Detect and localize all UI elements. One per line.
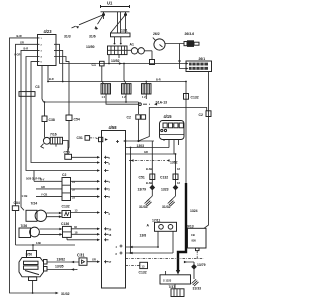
svg-text:13/50: 13/50: [86, 45, 95, 49]
ground 31/33 bottom right: [192, 279, 202, 290]
wire junction to spark column: [151, 141, 153, 196]
svg-text:B-SB: B-SB: [146, 167, 152, 171]
svg-text:B-SB: B-SB: [146, 181, 152, 185]
svg-text:13/79: 13/79: [138, 187, 147, 191]
wire 3/50 terminal 13/82: [47, 261, 79, 263]
svg-text:C132: C132: [62, 205, 70, 209]
component 7/16 sensor: [41, 122, 63, 149]
svg-text:1 CB: 1 CB: [22, 194, 28, 198]
connector C3 strip: [19, 85, 40, 96]
node pin crosses inside 4/58: [104, 140, 119, 263]
svg-text:Y-GR: Y-GR: [14, 53, 20, 57]
wire U1 negative fan to grounds: [79, 15, 104, 25]
wire rows to 17/11: [126, 247, 174, 253]
svg-text:26/3-6: 26/3-6: [185, 32, 195, 36]
svg-text:13/1: 13/1: [121, 29, 128, 33]
svg-text:C50: C50: [64, 150, 70, 154]
svg-text:13/82: 13/82: [57, 257, 66, 261]
svg-text:C31: C31: [77, 253, 85, 258]
component U1 battery: [101, 0, 130, 16]
wire dashed 1362: [129, 160, 165, 162]
svg-text:C132: C132: [191, 96, 199, 100]
wire row 147: [126, 147, 170, 149]
wire main right vertical: [185, 82, 187, 184]
svg-text:S1A-13: S1A-13: [156, 101, 168, 105]
component 7/37: [169, 284, 185, 297]
fuse 3: [142, 84, 152, 94]
svg-text:B-R: B-R: [24, 47, 29, 51]
svg-text:Y-CB: Y-CB: [41, 193, 47, 197]
connector C54: [66, 115, 80, 122]
wire 3/50 bottom tab to ground run: [32, 281, 34, 294]
relay 17/11: [147, 218, 177, 253]
connector C2 right: [199, 111, 212, 117]
wire dashed 9/13 down: [126, 251, 204, 259]
svg-text:7/26: 7/26: [21, 224, 28, 228]
svg-text:13/35: 13/35: [55, 265, 64, 269]
wire 4/23 pin3 left: [21, 50, 38, 210]
ground 31/33 left: [139, 196, 152, 209]
svg-text:7/24: 7/24: [31, 202, 38, 206]
svg-text:1 2: 1 2: [142, 95, 146, 99]
component 7/24 solenoid: [26, 202, 47, 222]
connector C84: [12, 201, 26, 245]
svg-text:C54: C54: [74, 118, 80, 122]
connector C2 pair mid: [127, 115, 146, 120]
fuse 2: [122, 84, 132, 94]
svg-text:1362: 1362: [170, 161, 178, 165]
connector 26/1: [186, 57, 212, 71]
wire 7/24 to C132 diodes: [47, 213, 61, 217]
ground 31/32 right: [162, 196, 176, 209]
wire C132 to 4/58: [71, 212, 99, 214]
wire 4/23 pin2 left: [16, 44, 38, 206]
svg-text:C2: C2: [127, 116, 131, 120]
component 4/23 ignition switch: [38, 29, 57, 66]
ground arrow 31/3: [64, 25, 79, 38]
svg-text:13B: 13B: [36, 241, 41, 245]
svg-text:A1: A1: [130, 42, 134, 46]
svg-text:C1: C1: [92, 63, 96, 67]
svg-text:31/32: 31/32: [61, 292, 70, 296]
connector C132 mid: [160, 167, 180, 185]
svg-text:1324: 1324: [190, 209, 198, 213]
connector C136: [61, 222, 71, 237]
svg-text:C51: C51: [77, 136, 83, 140]
wire 4/23 pin5 left: [31, 62, 99, 163]
splice 1323: [161, 185, 178, 192]
wire clock down to 26/1: [180, 44, 188, 69]
splice 13/79 bottom right: [184, 261, 206, 279]
svg-text:C132: C132: [139, 270, 147, 274]
component 4/58 control unit: [102, 125, 126, 288]
svg-text:CB: CB: [191, 233, 195, 237]
svg-text:7/16: 7/16: [50, 133, 57, 137]
wire row 154: [126, 153, 176, 155]
svg-text:C136: C136: [61, 222, 69, 226]
svg-text:4/15: 4/15: [164, 114, 173, 119]
svg-text:826: 826: [192, 239, 197, 243]
wire S1A-13: [106, 94, 167, 106]
wire C2 right down to junction node: [139, 108, 206, 141]
svg-text:C3: C3: [35, 85, 39, 89]
connector C132 bottom left boxes: [126, 262, 148, 274]
svg-text:4/23: 4/23: [44, 29, 53, 34]
svg-text:13/52: 13/52: [111, 59, 120, 63]
wire U1 positive bundle to 13/1: [111, 12, 126, 33]
svg-text:17/11: 17/11: [152, 218, 160, 222]
svg-text:31/6: 31/6: [89, 35, 96, 39]
svg-text:4/58: 4/58: [109, 125, 118, 130]
svg-text:1 2: 1 2: [122, 95, 126, 99]
svg-text:GR: GR: [20, 40, 24, 44]
connector C2 three-cell: [34, 171, 75, 201]
svg-text:B-R: B-R: [156, 77, 161, 81]
splice 13/79: [138, 185, 156, 192]
wire C2 rows to 4/58: [71, 181, 99, 196]
wire C2 down to junction: [138, 120, 140, 142]
svg-text:1323: 1323: [161, 187, 169, 191]
wire 7/16 to C50: [63, 121, 70, 155]
svg-text:C84: C84: [14, 201, 20, 205]
connector 13/1: [111, 29, 131, 45]
motor A1: [127, 42, 155, 64]
wire 4/23 right pin B to B-R bus: [56, 50, 63, 81]
svg-text:31/3: 31/3: [64, 35, 71, 39]
svg-text:C2: C2: [62, 173, 66, 177]
node main feed wire 13/52 to 26/1: [59, 59, 186, 65]
svg-text:1 2: 1 2: [102, 95, 106, 99]
connector C1: [92, 61, 105, 67]
svg-text:U1: U1: [107, 0, 113, 5]
wire C136 rows to 4/58: [67, 229, 99, 240]
component 7/26 solenoid: [19, 224, 39, 238]
connector C31: [77, 253, 100, 266]
clock 26/2: [153, 32, 165, 50]
wire 4/23 bottom pins: [42, 66, 48, 103]
ground arrow 31/6: [89, 26, 98, 39]
wire junction into 4/58 right: [126, 140, 155, 142]
relay 13/50: [86, 45, 127, 55]
wire B-R bus: [48, 81, 186, 83]
component 9/13 radio: [187, 225, 206, 251]
svg-text:C51: C51: [139, 175, 145, 179]
svg-text:13/8: 13/8: [140, 234, 147, 238]
wire 3/50 terminal 13/35: [47, 269, 77, 272]
svg-text:GR: GR: [41, 185, 45, 189]
svg-text:GR: GR: [92, 257, 96, 261]
connector C50: [64, 150, 101, 159]
svg-text:S 1323: S 1323: [163, 278, 172, 282]
svg-text:31/32: 31/32: [162, 205, 171, 209]
wire x26 horizontal y245: [26, 245, 75, 251]
svg-text:C38: C38: [49, 118, 55, 122]
connector C51: [139, 167, 155, 185]
svg-text:5/28 OLR-PA: 5/28 OLR-PA: [26, 177, 42, 181]
connector C132 diode pack: [62, 205, 71, 218]
svg-text:31/33: 31/33: [139, 205, 148, 209]
svg-text:B-W: B-W: [17, 34, 23, 38]
wire 7/26 to C136: [39, 229, 61, 234]
svg-text:GR: GR: [144, 150, 148, 154]
wire 4/23 right pin A to feed: [56, 44, 60, 63]
wire 4/23 pin4 left: [26, 57, 99, 171]
wire right edge vertical from 26/1: [204, 72, 209, 229]
svg-text:B-R: B-R: [49, 77, 54, 81]
svg-text:26/2: 26/2: [153, 32, 160, 36]
component fuel pump bar: [160, 271, 191, 284]
svg-text:31/33: 31/33: [193, 287, 202, 291]
component 4/15 ignition coil module: [160, 114, 185, 154]
connector C132 top right: [184, 94, 199, 100]
svg-text:13/79: 13/79: [197, 263, 206, 267]
wire 4/23 pin1 left: [10, 38, 58, 293]
connector 26/3-6: [165, 32, 199, 47]
wire feeds into C2 three-cell: [34, 171, 62, 197]
wire 4/23 right pin C to C54: [56, 57, 69, 116]
svg-text:C132: C132: [160, 175, 168, 179]
component 3/50 ignition lock: [19, 251, 47, 281]
svg-text:C2: C2: [199, 113, 203, 117]
wire thick feed: [178, 183, 186, 271]
fuse 1: [101, 84, 111, 94]
connector C38: [42, 102, 55, 122]
wire ignition branch y102: [44, 102, 139, 114]
